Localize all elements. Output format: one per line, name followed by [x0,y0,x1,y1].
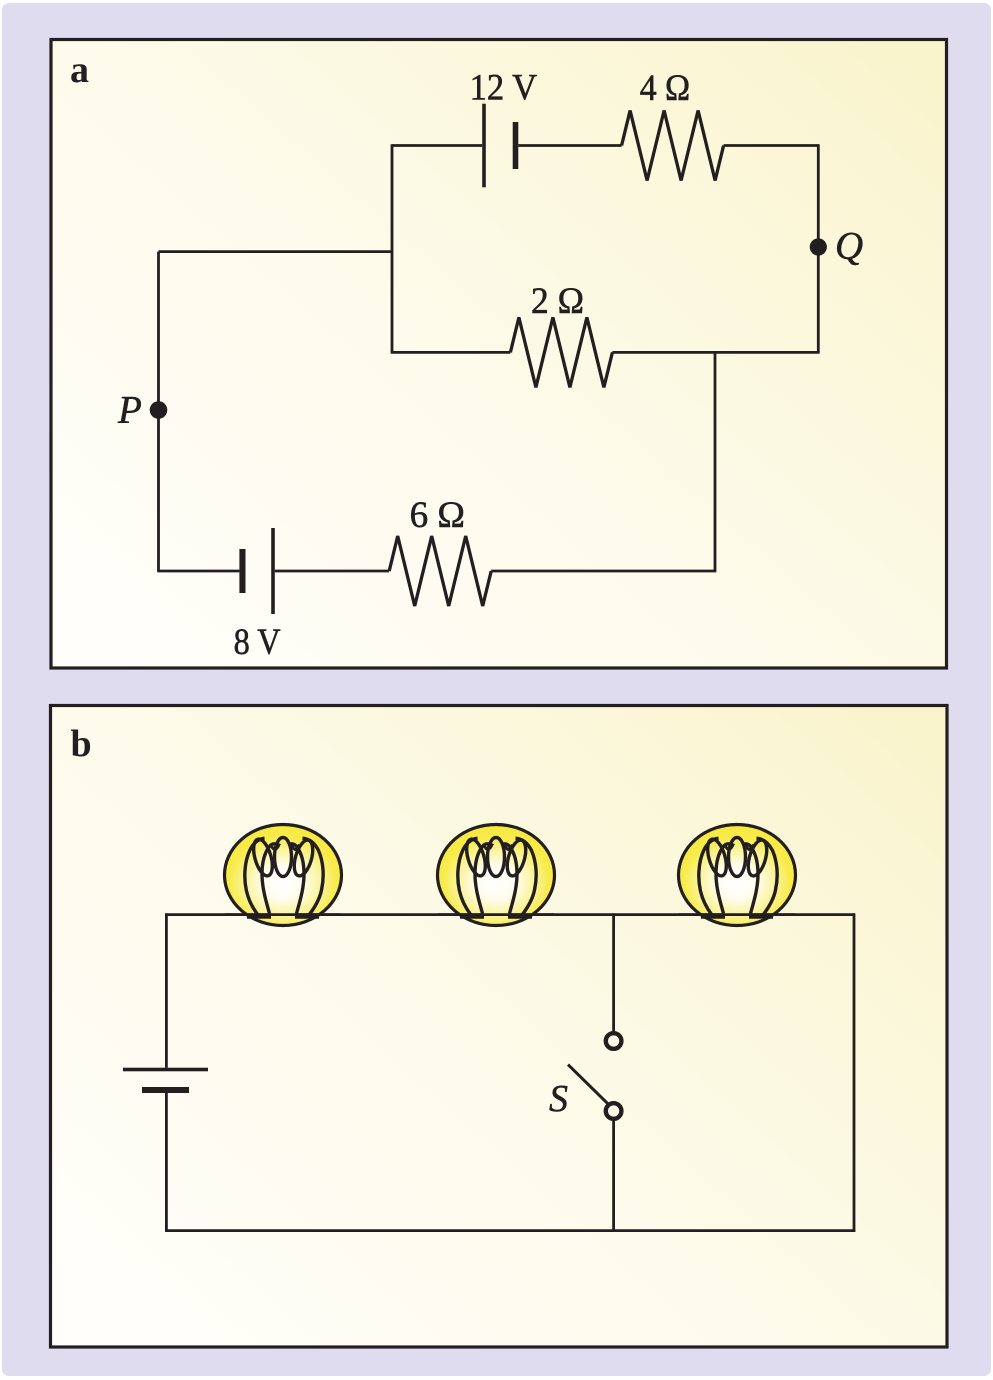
svg-text:2 Ω: 2 Ω [531,281,584,322]
battery 8V long plate [271,528,275,614]
svg-text:S: S [549,1078,568,1120]
svg-text:12 V: 12 V [470,68,538,109]
wire switch branch upper [612,913,615,1031]
svg-text:4 Ω: 4 Ω [640,68,691,109]
wire junction vertical down to bottom branch [714,352,717,571]
wire from 12V battery to 4 ohm resistor [518,144,621,147]
wire from 4 ohm resistor to right corner [724,144,819,147]
wire top of loop in panel b [166,913,854,916]
wire top from left vertical to 12V battery [392,144,482,147]
wire switch branch lower [612,1121,615,1231]
wire left vertical through P [157,252,160,571]
panel a frame [51,40,947,669]
switch S top terminal circle [606,1033,622,1049]
battery 8V short plate [239,549,245,593]
wire middle from left vertical to 2 ohm resistor [391,351,511,354]
battery B long plate [123,1068,208,1072]
wire from 6 ohm resistor to junction vertical [491,570,716,573]
battery B short plate [142,1087,189,1093]
resistor R 2 ohm zigzag [510,317,612,387]
svg-text:a: a [70,49,89,91]
lamp L2 [438,825,555,926]
svg-text:Q: Q [835,225,863,268]
panel b frame [51,706,948,1348]
resistor R 4 ohm zigzag [622,111,724,181]
wire from 8V battery to 6 ohm resistor [275,570,389,573]
svg-text:6 Ω: 6 Ω [410,495,465,536]
wire left vertical of parallel loop [391,144,394,352]
lamp L3 [679,825,796,926]
battery 12V long plate [482,104,486,188]
lamp L1 [225,825,342,926]
resistor R 6 ohm zigzag [389,536,491,606]
svg-text:b: b [71,723,92,765]
battery 12V short plate [513,122,519,169]
node Q dot [810,238,827,255]
wire bottom of loop in panel b [165,1229,855,1232]
wire left vertical lower (battery to bottom) [165,1093,168,1232]
node P dot [150,401,168,419]
wire horizontal to P vertical [159,250,393,253]
wire left vertical upper (to battery) [165,913,168,1067]
wire from 2 ohm resistor to Q vertical [612,351,819,354]
svg-text:P: P [117,389,142,432]
wire bottom from P vertical to 8V battery [157,570,239,573]
switch S bottom terminal circle [606,1103,622,1119]
wire right vertical through Q [817,144,820,352]
svg-text:8 V: 8 V [234,622,281,663]
wire right vertical of loop [853,913,856,1232]
switch S blade [568,1065,610,1106]
